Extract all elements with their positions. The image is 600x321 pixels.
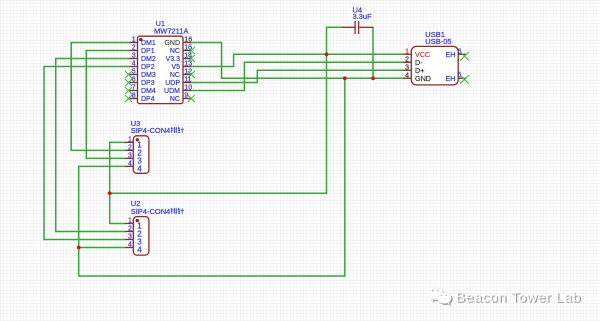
svg-text:4: 4 xyxy=(128,242,132,249)
U2 value CJK suffix xyxy=(171,208,184,214)
svg-text:5: 5 xyxy=(132,69,136,76)
svg-text:NC: NC xyxy=(170,72,180,79)
svg-text:3: 3 xyxy=(405,65,409,72)
pin 5 stub xyxy=(130,74,138,76)
pin 9 stub xyxy=(183,98,191,100)
wire net VCC: horizontal rail xyxy=(110,192,327,194)
svg-text:4: 4 xyxy=(132,61,136,68)
U4 left lead xyxy=(342,26,355,28)
U4 right plate xyxy=(358,21,360,34)
svg-text:7: 7 xyxy=(132,85,136,92)
U4 left plate xyxy=(354,21,356,34)
pin 12 stub xyxy=(183,74,191,76)
watermark WeChat logo xyxy=(430,288,451,305)
svg-text:3: 3 xyxy=(128,234,132,241)
wire net GND: U1 pin16 to USB1 GND xyxy=(191,43,403,79)
svg-text:V5: V5 xyxy=(171,64,180,71)
pin 1 stub xyxy=(125,141,133,143)
pin 6 stub xyxy=(458,53,466,55)
svg-text:DP4: DP4 xyxy=(141,96,155,103)
header U3 SIP4-CON4 xyxy=(125,119,184,174)
svg-text:EH: EH xyxy=(446,50,456,59)
no-connect X U1 pin 6 xyxy=(125,79,132,86)
no-connect X U1 pin 12 xyxy=(188,71,195,78)
junction node VCC rail at header branch xyxy=(108,191,112,195)
svg-text:DM1: DM1 xyxy=(141,40,156,47)
pin 2 stub xyxy=(130,50,138,52)
svg-text:UDM: UDM xyxy=(164,88,180,95)
no-connect X U1 pin 15 xyxy=(188,47,195,54)
svg-text:2: 2 xyxy=(128,226,132,233)
pin 11 stub xyxy=(183,82,191,84)
pin 3 stub xyxy=(125,157,133,159)
no-connect X U1 pin 7 xyxy=(125,87,132,94)
wire net UDM: U1 pin10 to USB1 D- xyxy=(191,62,403,90)
pin 3 stub xyxy=(130,58,138,60)
junction node GND at capacitor lead xyxy=(371,76,375,80)
wire net UDP: U1 pin11 to USB1 D+ xyxy=(191,70,403,82)
svg-text:1: 1 xyxy=(128,218,132,225)
wire net VCC: U1 pin13 V5 to USB1 VCC xyxy=(191,54,403,66)
svg-text:NC: NC xyxy=(170,48,180,55)
svg-text:3: 3 xyxy=(128,153,132,160)
U1 pin1 marker dot xyxy=(139,38,142,41)
wire net DP2: U1 pin4 to U2 pin3 xyxy=(44,67,130,240)
svg-text:EH: EH xyxy=(446,74,456,83)
pin 6 stub xyxy=(130,82,138,84)
svg-text:4: 4 xyxy=(137,246,142,255)
svg-text:2: 2 xyxy=(132,45,136,52)
junction node VCC at capacitor branch xyxy=(325,52,329,56)
no-connect X U1 pin 14 xyxy=(188,55,195,62)
svg-text:2: 2 xyxy=(405,57,409,64)
pin 8 stub xyxy=(130,98,138,100)
capacitor U4 3.3uF xyxy=(342,5,373,34)
svg-text:GND: GND xyxy=(415,74,431,83)
svg-text:DM3: DM3 xyxy=(141,72,156,79)
svg-text:SIP4-CON4: SIP4-CON4 xyxy=(131,207,171,216)
wire net DP1: U1 pin2 to U3 pin3 xyxy=(86,51,129,159)
pin 2 stub xyxy=(125,149,133,151)
junction node GND at U2 pin4 xyxy=(77,246,81,250)
svg-text:4: 4 xyxy=(405,73,409,80)
svg-text:DP1: DP1 xyxy=(141,48,155,55)
pin 3 stub xyxy=(403,69,411,71)
pin 4 stub xyxy=(125,247,133,249)
pin 4 stub xyxy=(125,165,133,167)
pin 16 stub xyxy=(183,42,191,44)
no-connect X U1 pin 8 xyxy=(125,95,132,102)
U3 value CJK suffix xyxy=(171,127,184,133)
svg-text:8: 8 xyxy=(132,93,136,100)
U3 pin1 marker dot xyxy=(136,138,139,141)
pin 15 stub xyxy=(183,50,191,52)
pin 13 stub xyxy=(183,66,191,68)
svg-text:10: 10 xyxy=(184,85,192,92)
svg-text:1: 1 xyxy=(132,37,136,44)
svg-text:3: 3 xyxy=(132,53,136,60)
wire net VCC: U3 pin1 / U2 pin1 branch xyxy=(110,142,126,223)
svg-text:GND: GND xyxy=(164,40,180,47)
wire net GND: capacitor right lead down to GND row xyxy=(372,27,374,78)
header U2 SIP4-CON4 xyxy=(125,199,184,255)
pin 7 stub xyxy=(130,90,138,92)
wire net GND: U3 pin4 loop to GND row xyxy=(79,78,345,276)
pin 3 stub xyxy=(125,239,133,241)
svg-text:1: 1 xyxy=(128,137,132,144)
no-connect X U1 pin 5 xyxy=(125,71,132,78)
svg-text:4: 4 xyxy=(128,161,132,168)
IC U1 MW7211A xyxy=(125,19,195,104)
svg-text:Beacon Tower Lab: Beacon Tower Lab xyxy=(456,289,581,305)
pin 1 stub xyxy=(125,223,133,225)
svg-text:NC: NC xyxy=(170,96,180,103)
connector USB1 USB-05 xyxy=(403,30,469,85)
wire net DM2: U1 pin3 to U2 pin2 xyxy=(56,59,130,232)
svg-text:DP3: DP3 xyxy=(141,80,155,87)
U4 right lead xyxy=(359,26,373,28)
no-connect X USB1 pin 6 xyxy=(460,52,469,61)
pin 4 stub xyxy=(130,66,138,68)
svg-text:DM2: DM2 xyxy=(141,56,156,63)
pin 1 stub xyxy=(403,53,411,55)
svg-text:16: 16 xyxy=(184,37,192,44)
svg-text:DP2: DP2 xyxy=(141,64,155,71)
pin 10 stub xyxy=(183,90,191,92)
pin 5 stub xyxy=(458,77,466,79)
svg-text:6: 6 xyxy=(132,77,136,84)
no-connect X U1 pin 9 xyxy=(188,95,195,102)
svg-text:DM4: DM4 xyxy=(141,88,156,95)
pin 2 stub xyxy=(403,61,411,63)
svg-text:2: 2 xyxy=(128,145,132,152)
U2 pin1 marker dot xyxy=(136,219,139,222)
svg-text:9: 9 xyxy=(184,93,188,100)
wire net DM1: U1 pin1 to U3 pin2 xyxy=(71,43,129,151)
wire net VCC: capacitor branch down to VCC rail xyxy=(327,27,343,193)
pin 14 stub xyxy=(183,58,191,60)
svg-text:1: 1 xyxy=(405,49,409,56)
pin 4 stub xyxy=(403,77,411,79)
svg-text:SIP4-CON4: SIP4-CON4 xyxy=(131,126,171,135)
svg-text:4: 4 xyxy=(137,165,142,174)
svg-text:UDP: UDP xyxy=(165,80,180,87)
no-connect X USB1 pin 5 xyxy=(460,75,469,84)
svg-text:MW7211A: MW7211A xyxy=(154,26,188,35)
wire net GND: U2 pin4 stub xyxy=(79,247,126,249)
svg-text:V3.3: V3.3 xyxy=(166,56,181,63)
pin 1 stub xyxy=(130,42,138,44)
pin 2 stub xyxy=(125,231,133,233)
svg-text:3.3uF: 3.3uF xyxy=(353,12,373,21)
svg-text:USB-05: USB-05 xyxy=(425,37,451,46)
junction node GND at loop branch xyxy=(343,76,347,80)
